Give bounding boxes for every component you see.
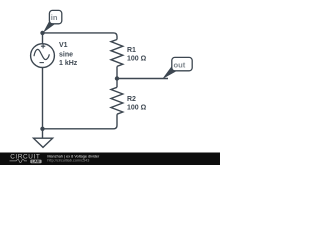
- wire: top net from node in to R1: [43, 33, 118, 40]
- resistor R1: [111, 40, 123, 67]
- svg-text:LAB: LAB: [32, 160, 40, 164]
- resistor R2: [111, 87, 123, 114]
- svg-text:R1: R1: [127, 47, 136, 54]
- svg-text:in: in: [51, 13, 58, 22]
- wire: R2 bottom return to ground node: [43, 114, 118, 129]
- svg-text:1 kHz: 1 kHz: [59, 60, 78, 67]
- wire: V1 bottom lead: [42, 68, 44, 129]
- junction: node in dot: [40, 31, 44, 35]
- svg-text:100 Ω: 100 Ω: [127, 105, 147, 112]
- label V1 sine 1 kHz: [59, 42, 78, 67]
- label R2 100 ohm: [127, 96, 147, 112]
- svg-text:R2: R2: [127, 96, 136, 103]
- svg-text:100 Ω: 100 Ω: [127, 56, 147, 63]
- label R1 100 ohm: [127, 47, 147, 63]
- footer bar: [0, 153, 220, 166]
- node label "out" flag: [162, 57, 192, 79]
- junction: out node dot: [115, 76, 119, 80]
- node label "in" flag: [43, 10, 62, 32]
- svg-text:http://circuitlab.com/c543: http://circuitlab.com/c543: [47, 159, 89, 163]
- svg-text:sine: sine: [59, 51, 73, 58]
- ground: [34, 129, 53, 148]
- wire: R1 to out junction: [116, 66, 118, 78]
- CircuitLab logo: [10, 153, 42, 163]
- wire: out stub: [117, 78, 168, 80]
- svg-text:V1: V1: [59, 42, 68, 49]
- wire: out junction to R2: [116, 79, 118, 88]
- junction: ground node dot: [40, 127, 44, 131]
- voltage source V1: [31, 44, 55, 68]
- svg-text:out: out: [174, 61, 186, 70]
- wire: V1 top lead: [42, 33, 44, 44]
